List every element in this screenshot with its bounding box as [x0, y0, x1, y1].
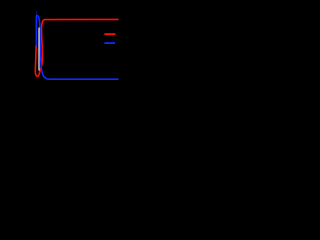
white vertical marker line	[38, 28, 40, 71]
background	[0, 0, 145, 102]
plot canvas	[0, 0, 145, 102]
legend blue line	[104, 42, 115, 44]
blue curve	[36, 16, 118, 80]
legend red line	[104, 33, 115, 35]
blue curve peak tip (dim narrow spike)	[35, 11, 37, 16]
red curve	[35, 19, 118, 76]
